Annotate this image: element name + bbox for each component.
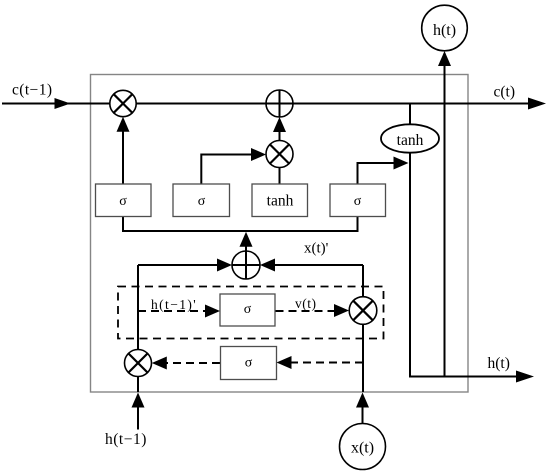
arrow v(t) into X3 <box>334 304 349 317</box>
svg-text:x(t): x(t) <box>351 440 374 457</box>
wire dashed sigma6 to x4 <box>165 362 220 364</box>
arrow sigma4 to h column <box>394 157 409 170</box>
sigma box 2 <box>173 184 230 217</box>
svg-text:σ: σ <box>245 356 253 371</box>
wire c-line to tanh <box>409 104 411 127</box>
wire tanh box to x2 <box>279 167 281 184</box>
svg-text:tanh: tanh <box>267 193 294 210</box>
arrow into P2 right <box>260 259 275 272</box>
multiply node X2 <box>266 141 293 168</box>
wire h(t-1) vertical inside <box>137 265 139 351</box>
arrow c(t) out <box>528 98 546 110</box>
arrow x(t) into cell <box>356 393 369 408</box>
arrow h(t) out <box>516 371 534 383</box>
svg-text:c(t): c(t) <box>494 84 516 101</box>
wire sigma4 to h column <box>358 163 397 184</box>
arrow into P2 left <box>217 259 232 272</box>
wire sigma1 to x1 <box>122 120 124 184</box>
svg-text:σ: σ <box>244 302 252 317</box>
svg-text:σ: σ <box>354 194 362 209</box>
wire x(t) vertical inside <box>362 265 364 392</box>
wire dashed feedback from x line to sigma6 <box>290 362 363 364</box>
sigma box 1 <box>96 184 152 217</box>
wire h(t-1) input below <box>137 403 139 430</box>
arrow plus2 to bus <box>240 232 253 247</box>
wire dashed v(t) into x3 <box>276 310 338 312</box>
svg-text:σ: σ <box>119 194 127 209</box>
wire x path into plus2 <box>272 264 363 266</box>
svg-text:σ: σ <box>198 194 206 209</box>
svg-text:x(t)': x(t)' <box>304 241 329 257</box>
tanh box <box>252 184 308 217</box>
wire dashed h(t-1)' into sigma5 <box>138 310 208 312</box>
svg-text:h(t): h(t) <box>488 355 510 372</box>
wire h(t) output bottom <box>409 376 519 378</box>
multiply node X4 <box>125 350 152 377</box>
wire x(t) input below <box>362 403 364 424</box>
svg-text:h(t−1)': h(t−1)' <box>151 297 197 312</box>
sigma box 6 <box>221 347 277 380</box>
svg-text:h(t): h(t) <box>433 22 456 39</box>
svg-text:tanh: tanh <box>397 132 424 149</box>
wire gate bus <box>123 217 358 232</box>
sigma box 5 (inside dashed) <box>220 294 275 326</box>
multiply node X1 on c-line <box>110 90 136 116</box>
wire h path into plus2 <box>138 264 220 266</box>
arrow into X2 <box>251 148 266 161</box>
x(t) input circle <box>340 424 386 470</box>
arrow sigma6 into X4 <box>152 357 167 370</box>
arrow into P1 <box>273 117 286 132</box>
tanh ellipse <box>381 124 439 152</box>
arrow into X1 <box>117 117 130 132</box>
arrow h(t-1)' into sigma5 <box>205 305 220 318</box>
wire tanh down <box>409 151 411 378</box>
outer cell boundary <box>91 75 469 393</box>
arrow h(t-1) into cell <box>132 393 145 408</box>
wire h(t) vertical through cell <box>444 53 446 377</box>
wire main c-line <box>2 103 531 105</box>
arrow into h(t) circle <box>438 51 451 66</box>
wire x2 to plus1 <box>279 120 281 141</box>
svg-text:v(t): v(t) <box>295 296 317 311</box>
svg-text:h(t−1): h(t−1) <box>105 431 147 448</box>
multiply node X3 (in dashed box) <box>349 297 377 325</box>
h(t) output circle <box>422 5 468 51</box>
wire plus2 up to bus <box>245 234 247 252</box>
sigma box 4 <box>330 184 386 217</box>
arrow c(t-1) mid <box>55 98 71 109</box>
wire sigma2 to x2 <box>201 155 254 185</box>
svg-text:c(t−1): c(t−1) <box>12 82 52 99</box>
add node P1 on c-line <box>266 90 293 117</box>
wire x4 to bottom edge <box>137 376 139 393</box>
dashed attention rectangle <box>118 287 384 339</box>
arrow into sigma6 <box>277 356 292 369</box>
add node P2 <box>232 251 260 279</box>
